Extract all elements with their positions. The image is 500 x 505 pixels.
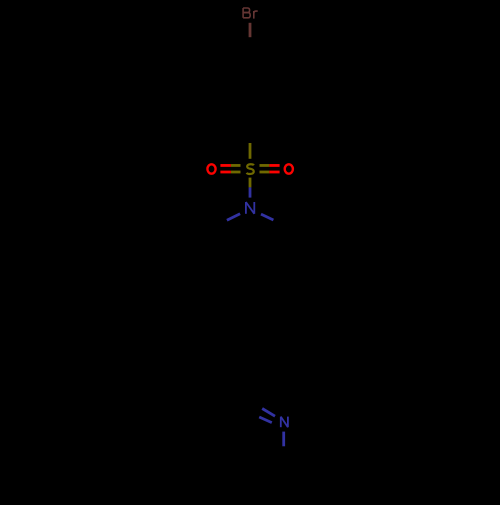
atom label S (sulfur): [247, 164, 254, 174]
double bond C=N pyridine, outer line nitrogen half: [262, 409, 275, 417]
double bond S=O right, upper line red half: [269, 164, 279, 167]
bond S-N, sulfur half: [249, 178, 252, 188]
bond N-C left stub (nitrogen half): [227, 214, 240, 221]
bond N-C right stub (nitrogen half): [261, 214, 273, 220]
double bond S=O left, lower line sulfur half: [231, 171, 241, 174]
atom label N (pyridine nitrogen): [281, 417, 288, 428]
double bond S=O left, upper line sulfur half: [231, 164, 241, 167]
double bond C=N pyridine, inner line nitrogen half: [259, 417, 272, 423]
atom label Br (bromine): [243, 8, 258, 19]
double bond S=O left, upper line red half: [220, 164, 231, 167]
bond C-S stub (sulfur half): [249, 143, 252, 159]
bond N-C pyridine lower stub (nitrogen half): [282, 432, 285, 447]
bond S-N, nitrogen half: [249, 187, 252, 197]
double bond S=O right, lower line red half: [269, 171, 279, 174]
double bond S=O right, lower line sulfur half: [260, 171, 270, 174]
atom label N (piperidine nitrogen): [246, 202, 254, 214]
double bond S=O left, lower line red half: [220, 171, 231, 174]
double bond S=O right, upper line sulfur half: [260, 164, 270, 167]
atom label O (left oxygen): [207, 164, 215, 173]
bond Br-C stub (bromine half): [249, 23, 252, 37]
atom label O (right oxygen): [285, 164, 293, 173]
